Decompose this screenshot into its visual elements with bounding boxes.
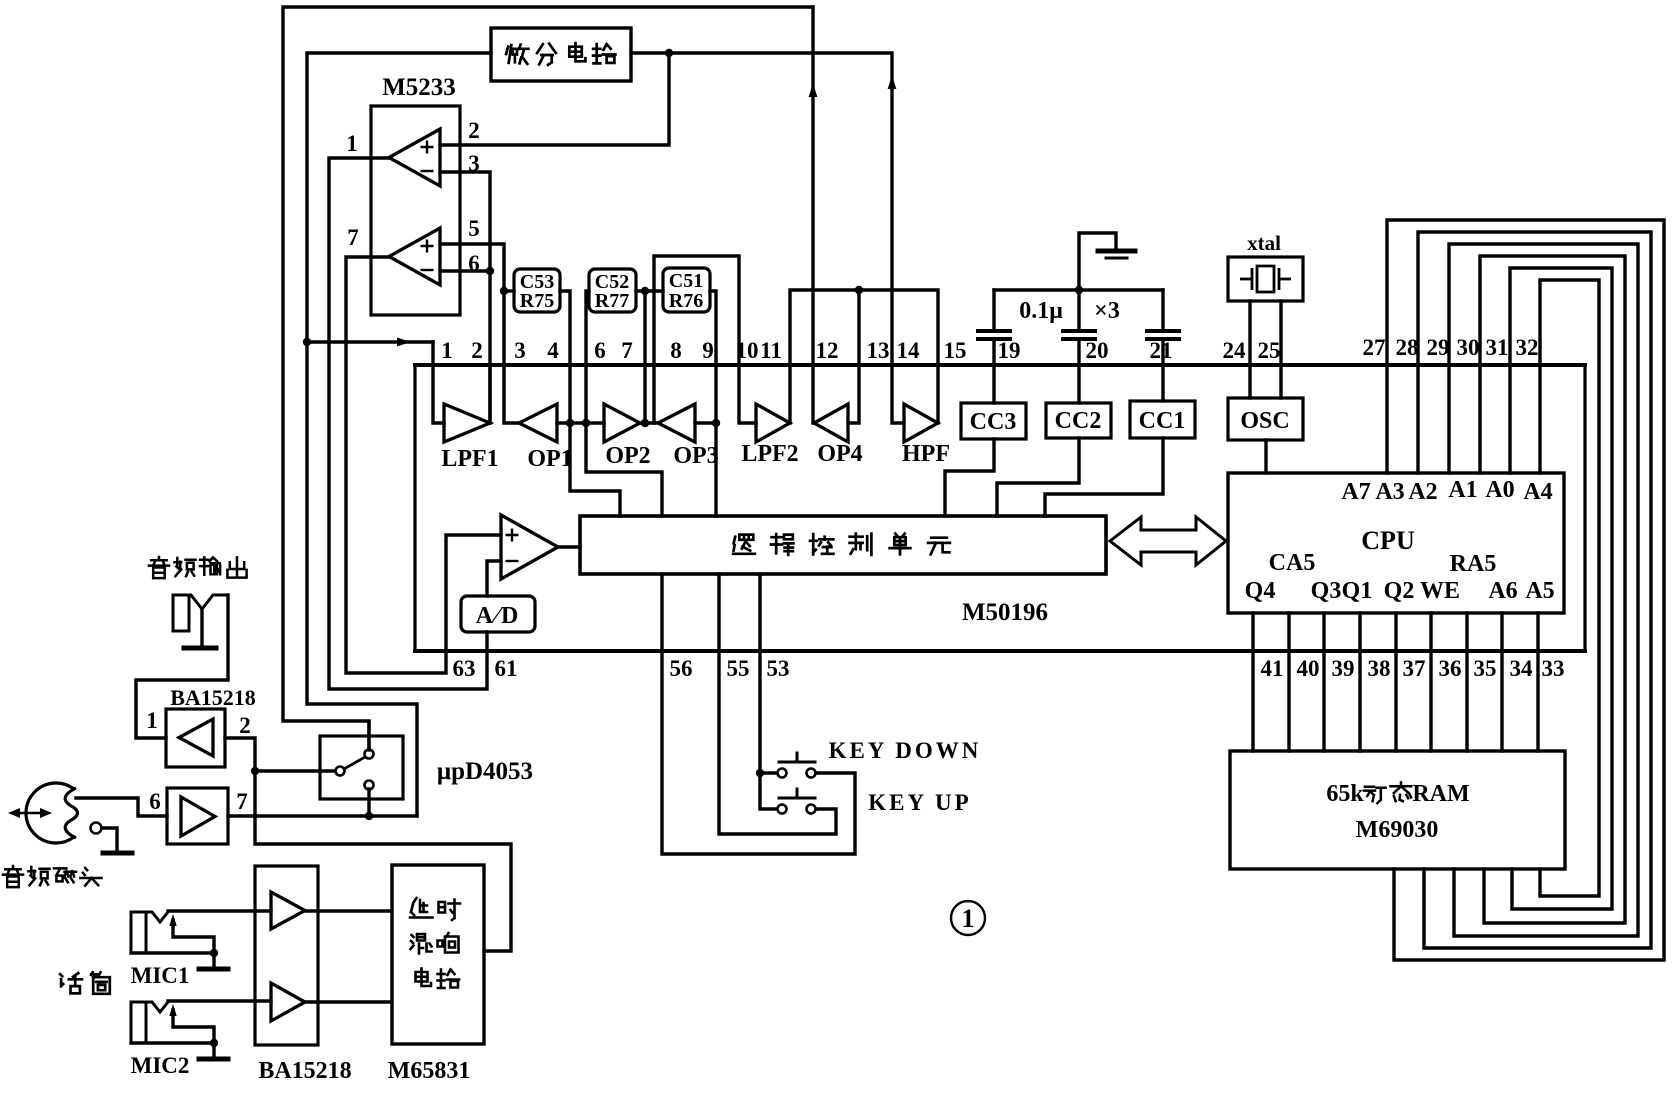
wire M5233 pin3/pin6 to IC pin 2 (LPF1 output) xyxy=(440,172,490,423)
svg-text:8: 8 xyxy=(670,338,682,363)
junction key down common xyxy=(756,769,764,777)
pin 14 label xyxy=(897,338,921,363)
pin 61 label xyxy=(495,656,518,681)
svg-text:xtal: xtal xyxy=(1247,231,1281,255)
wire amp output (crosses to pin 1 feed) xyxy=(228,814,417,817)
wire CC3 to logic unit xyxy=(945,439,994,516)
svg-text:WE: WE xyxy=(1420,578,1460,604)
svg-text:OSC: OSC xyxy=(1240,408,1289,434)
wire M5233 pin 5 to IC pin 3 (OP1 output) xyxy=(440,244,519,423)
op-amp block M5233 outline xyxy=(371,106,460,315)
svg-text:CC1: CC1 xyxy=(1139,408,1186,434)
wire CPU pin to RAM xyxy=(1500,613,1503,751)
svg-text:BA15218: BA15218 xyxy=(170,685,256,710)
svg-text:M50196: M50196 xyxy=(962,599,1048,626)
svg-text:27: 27 xyxy=(1363,335,1386,360)
pin 1 label xyxy=(441,338,453,363)
buffer LPF2 xyxy=(756,404,790,442)
svg-text:A∕D: A∕D xyxy=(476,603,521,629)
tape head symbol 音频磁头 xyxy=(26,783,77,843)
pin 8 label xyxy=(670,338,682,363)
wire C53 left to pin 3 net xyxy=(504,289,514,292)
delay/reverb circuit block M65831 xyxy=(392,865,484,1044)
pin 21 label xyxy=(1150,338,1173,363)
svg-text:OP2: OP2 xyxy=(605,443,650,469)
pin 12 label xyxy=(816,338,839,363)
svg-text:2: 2 xyxy=(239,713,251,738)
wire pin 55 to KEY UP return xyxy=(719,574,836,834)
svg-text:10: 10 xyxy=(736,338,759,363)
pin 3 label xyxy=(468,151,480,176)
capacitor at pin 19 xyxy=(992,290,995,330)
buffer OP1 xyxy=(519,404,557,442)
wire differentiator output to M5233 op-amp1 + input (pin 2) xyxy=(440,53,669,145)
svg-text:MIC2: MIC2 xyxy=(131,1053,190,1078)
svg-text:A5: A5 xyxy=(1525,578,1554,604)
wire LPF2 output pin 11 to pin 13 and pin 15 over the top xyxy=(790,290,938,423)
IC label M5233 xyxy=(382,74,456,101)
switch KEY UP xyxy=(778,805,787,814)
svg-text:13: 13 xyxy=(867,338,890,363)
capacitor at pin 21 xyxy=(1161,290,1164,330)
pin 6 label xyxy=(468,251,480,276)
svg-text:A3: A3 xyxy=(1375,479,1404,505)
svg-text:19: 19 xyxy=(998,338,1021,363)
pin 15 label xyxy=(944,338,967,363)
svg-text:1: 1 xyxy=(441,338,453,363)
buffer OP2 xyxy=(604,404,640,442)
pin 53 label xyxy=(767,656,790,681)
pin 1 label xyxy=(346,131,358,156)
wire differentiator output to HPF input pin 14 xyxy=(631,53,904,423)
audio output jack xyxy=(173,595,189,631)
svg-text:29: 29 xyxy=(1427,335,1450,360)
pin 38 label xyxy=(1368,656,1391,681)
svg-text:20: 20 xyxy=(1086,338,1109,363)
pin 2 label xyxy=(468,118,480,143)
bus wire pin 27 CPU to RAM loop xyxy=(1387,220,1664,960)
wire OP2 output to OP3 output xyxy=(640,421,658,424)
wire pin 2 to switch and reverb return xyxy=(225,738,511,951)
bus wire pin 32 CPU to RAM loop xyxy=(1540,280,1599,896)
svg-text:1: 1 xyxy=(146,708,158,733)
wire C51 right to pin 9 / OP3 input xyxy=(710,291,716,516)
bidirectional arrow on tape head xyxy=(8,808,52,818)
svg-text:Q3: Q3 xyxy=(1311,578,1342,604)
svg-text:A2: A2 xyxy=(1408,479,1437,505)
amplifier label BA15218 xyxy=(170,685,256,710)
record amp BA15218b xyxy=(167,788,228,844)
tape head ground contact xyxy=(91,823,102,834)
wire tape-amp output to differentiator input and LPF1 input xyxy=(307,53,491,816)
wire LPF1 output to pin 2 xyxy=(488,365,491,423)
svg-text:2: 2 xyxy=(471,338,483,363)
wire C52 right to C51 left with pin 7 tap xyxy=(636,289,663,292)
wire pin 12 (OP4 output) up to outer top line xyxy=(813,7,814,423)
wire CPU pin to RAM xyxy=(1536,613,1539,751)
junction C53 tap on pin3 net xyxy=(500,287,508,295)
svg-text:7: 7 xyxy=(236,789,248,814)
wire amp1 to delay circuit xyxy=(305,909,392,912)
svg-text:Q4: Q4 xyxy=(1245,578,1276,604)
wire M5233 pin 7 output down to IC pin 63 (comparator chain) xyxy=(346,257,501,673)
svg-text:A4: A4 xyxy=(1523,479,1552,505)
wire OP1 input down to logic unit xyxy=(570,423,620,516)
wire to switch common xyxy=(255,769,335,772)
wire CPU pin to RAM xyxy=(1251,613,1254,751)
svg-text:33: 33 xyxy=(1542,656,1565,681)
wire CC2 to logic unit xyxy=(997,438,1079,516)
svg-text:LPF2: LPF2 xyxy=(741,441,798,467)
IC M50196 right edge xyxy=(1583,365,1586,651)
svg-text:C51: C51 xyxy=(669,270,703,292)
svg-text:A0: A0 xyxy=(1485,477,1514,503)
playback amp BA15218a xyxy=(166,709,225,767)
wire amp2 to delay circuit xyxy=(305,1000,392,1003)
junction on differentiator output xyxy=(665,49,673,57)
pin 1 label xyxy=(146,708,158,733)
wire MIC1 to amp xyxy=(168,909,271,912)
svg-text:38: 38 xyxy=(1368,656,1391,681)
junction pin 7 tap at buffer outputs xyxy=(641,419,649,427)
junction pin 13 tap xyxy=(855,286,863,294)
logic control unit block 逻辑控制单元 xyxy=(580,516,1106,574)
wire pin 1 into LPF1 xyxy=(433,342,444,423)
svg-text:12: 12 xyxy=(816,338,839,363)
pin 4 label xyxy=(547,338,559,363)
wire tape head to amp pin 6 xyxy=(76,798,167,816)
buffer OP4 xyxy=(814,404,848,442)
pin 7 label xyxy=(621,338,633,363)
buffer HPF xyxy=(904,404,938,442)
pin 29 label xyxy=(1427,335,1450,360)
wire comparator output to logic unit xyxy=(558,545,580,548)
pin 7 label xyxy=(236,789,248,814)
svg-text:53: 53 xyxy=(767,656,790,681)
wire CPU pin to RAM xyxy=(1287,613,1290,751)
svg-text:63: 63 xyxy=(453,656,476,681)
wire to KEY DOWN switch xyxy=(760,771,777,774)
svg-text:35: 35 xyxy=(1474,656,1497,681)
svg-text:Q2: Q2 xyxy=(1384,578,1415,604)
svg-text:32: 32 xyxy=(1516,335,1539,360)
wire M5233 pin 6 from inverting input xyxy=(440,269,490,272)
mic amplifier BA15218 (second) xyxy=(255,866,318,1045)
pin 2 label xyxy=(239,713,251,738)
pin 3 label xyxy=(514,338,526,363)
wire OP2 input down to logic unit xyxy=(586,423,662,516)
analog switch uPD4053 xyxy=(320,736,403,799)
pin 5 label xyxy=(468,216,480,241)
pin 32 label xyxy=(1516,335,1539,360)
svg-text:15: 15 xyxy=(944,338,967,363)
svg-text:31: 31 xyxy=(1486,335,1509,360)
svg-text:M69030: M69030 xyxy=(1356,817,1439,843)
label 话筒 xyxy=(60,972,110,994)
value label 0.1u x3 xyxy=(1019,298,1063,324)
svg-text:M5233: M5233 xyxy=(382,74,456,101)
svg-text:OP1: OP1 xyxy=(527,446,572,472)
pin 41 label xyxy=(1261,656,1284,681)
junction pin4 tap xyxy=(566,419,574,427)
wire OP4-output feedback to record/play switch (outer top line) xyxy=(283,7,813,750)
switch KEY DOWN xyxy=(778,769,787,778)
svg-text:OP3: OP3 xyxy=(673,443,718,469)
junction node at LPF1 input tap xyxy=(303,338,311,346)
pin 2 label xyxy=(471,338,483,363)
pin 13 label xyxy=(867,338,890,363)
junction pin6 joins xyxy=(486,267,494,275)
wire MIC2 to amp xyxy=(168,999,271,1002)
pin 63 label xyxy=(453,656,476,681)
svg-text:28: 28 xyxy=(1396,335,1419,360)
svg-text:40: 40 xyxy=(1297,656,1320,681)
svg-text:4: 4 xyxy=(547,338,559,363)
pin 10 label xyxy=(736,338,759,363)
wire C52 left to pin 6 / OP2 input xyxy=(586,291,589,423)
svg-text:41: 41 xyxy=(1261,656,1284,681)
junction switch common tap xyxy=(251,767,259,775)
pin 6 label xyxy=(149,789,161,814)
svg-text:A6: A6 xyxy=(1488,578,1517,604)
svg-text:39: 39 xyxy=(1332,656,1355,681)
wire M5233 pin 1 output down to IC pin 61 (A/D input chain) xyxy=(329,158,487,689)
wire xtal pin 24 to OSC xyxy=(1248,301,1251,398)
arrow up on pin 12 wire xyxy=(809,83,818,97)
pin 6 label xyxy=(594,338,606,363)
comparator U-comp before logic unit xyxy=(501,515,558,579)
IC label M50196 xyxy=(962,599,1048,626)
pin 25 label xyxy=(1258,338,1281,363)
wire OP3 output to LPF2 input over-the-top loop (pins 8-10) xyxy=(654,256,756,423)
svg-text:CA5: CA5 xyxy=(1269,550,1316,576)
pin 39 label xyxy=(1332,656,1355,681)
A/D converter block xyxy=(461,596,535,632)
svg-text:3: 3 xyxy=(514,338,526,363)
pin 30 label xyxy=(1457,335,1480,360)
svg-text:65k: 65k xyxy=(1326,781,1364,807)
pin 11 label xyxy=(760,338,782,363)
svg-text:×3: ×3 xyxy=(1094,298,1120,324)
arrow into pin 1 xyxy=(397,338,411,347)
wire C53 right to pin 4 / OP1 input xyxy=(560,291,570,423)
pin 19 label xyxy=(998,338,1021,363)
pin 20 label xyxy=(1086,338,1109,363)
svg-text:6: 6 xyxy=(149,789,161,814)
crystal xtal label xyxy=(1247,231,1281,255)
svg-text:6: 6 xyxy=(594,338,606,363)
capacitor C53 / resistor R75 feedback network xyxy=(514,269,560,312)
bus wire pin 29 CPU to RAM loop xyxy=(1449,244,1638,936)
svg-text:LPF1: LPF1 xyxy=(441,446,498,472)
op-amp U1a (M5233 first half) xyxy=(389,129,440,186)
wire switch lower contact to tape amp output xyxy=(367,789,370,816)
svg-text:1: 1 xyxy=(346,131,358,156)
svg-text:56: 56 xyxy=(670,656,693,681)
pin 34 label xyxy=(1510,656,1534,681)
svg-text:OP4: OP4 xyxy=(817,441,862,467)
arrow up on pin 14 wire xyxy=(888,75,897,89)
svg-text:R75: R75 xyxy=(520,290,554,312)
junction cap bus xyxy=(1075,286,1083,294)
microphone jack MIC2 xyxy=(131,1002,146,1043)
buffer OP3 xyxy=(658,404,695,442)
wire CPU pin to RAM xyxy=(1358,613,1361,751)
junction pin6 tap xyxy=(582,419,590,427)
IC M50196 left edge xyxy=(413,365,416,651)
block CC3 xyxy=(992,365,995,403)
svg-text:A7: A7 xyxy=(1341,479,1370,505)
IC M50196 bottom edge pin row xyxy=(415,649,1585,653)
ground symbol above decoupling caps xyxy=(1079,233,1116,290)
pin 28 label xyxy=(1396,335,1419,360)
figure number circled 1 xyxy=(951,901,985,935)
wire pin 56 to KEY DOWN return xyxy=(662,574,855,854)
svg-text:11: 11 xyxy=(760,338,782,363)
junction OP3 input xyxy=(712,419,720,427)
wire pin 7 to OP2/OP3 outputs xyxy=(643,291,646,423)
pin 40 label xyxy=(1297,656,1320,681)
label audio output 音频输出 xyxy=(149,557,247,578)
svg-text:30: 30 xyxy=(1457,335,1480,360)
svg-text:14: 14 xyxy=(897,338,921,363)
svg-text:24: 24 xyxy=(1223,338,1247,363)
buffer LPF1 xyxy=(444,404,490,442)
svg-text:7: 7 xyxy=(621,338,633,363)
junction on tape amp output xyxy=(365,812,373,820)
wire CPU pin to RAM xyxy=(1429,613,1432,751)
pin 55 label xyxy=(727,656,750,681)
pin 37 label xyxy=(1403,656,1426,681)
pin 56 label xyxy=(670,656,693,681)
wire pin 13 to OP4 input xyxy=(848,290,859,423)
svg-text:KEY UP: KEY UP xyxy=(868,790,971,815)
bus wire pin 31 CPU to RAM loop xyxy=(1510,268,1612,909)
label 音频磁头 xyxy=(3,866,102,887)
svg-text:RAM: RAM xyxy=(1412,781,1469,807)
pin 24 label xyxy=(1223,338,1247,363)
pin 35 label xyxy=(1474,656,1497,681)
svg-text:0.1μ: 0.1μ xyxy=(1019,298,1063,324)
switch label uPD4053 xyxy=(437,758,533,785)
svg-text:CPU: CPU xyxy=(1361,526,1415,555)
svg-text:21: 21 xyxy=(1150,338,1173,363)
svg-text:2: 2 xyxy=(468,118,480,143)
svg-text:5: 5 xyxy=(468,216,480,241)
wire OSC to CPU xyxy=(1264,440,1267,473)
block CPU xyxy=(1228,473,1564,613)
oscillator block OSC xyxy=(1228,398,1303,440)
IC M50196 top edge pin row xyxy=(415,363,1585,367)
svg-text:34: 34 xyxy=(1510,656,1534,681)
wire node to IC pin 1 (LPF1 input) xyxy=(307,340,433,343)
differentiator block 微分电路 xyxy=(491,28,631,81)
svg-text:7: 7 xyxy=(347,225,359,250)
pin 27 label xyxy=(1363,335,1386,360)
svg-text:HPF: HPF xyxy=(902,441,950,467)
wire CPU pin to RAM xyxy=(1322,613,1325,751)
pin 9 label xyxy=(702,338,714,363)
svg-text:9: 9 xyxy=(702,338,714,363)
crystal block xyxy=(1228,257,1303,301)
pin 36 label xyxy=(1439,656,1462,681)
wire jack to BA15218 pin 1 xyxy=(136,595,228,738)
wire OP3 input to pin 9 net xyxy=(695,421,716,424)
wire CPU pin to RAM xyxy=(1394,613,1397,751)
svg-text:R77: R77 xyxy=(595,290,629,312)
svg-text:1: 1 xyxy=(962,904,975,933)
svg-text:CC2: CC2 xyxy=(1055,408,1102,434)
wire pin 53 to key commons xyxy=(760,574,777,809)
capacitor C52 / resistor R77 feedback network xyxy=(589,269,636,312)
svg-text:6: 6 xyxy=(468,251,480,276)
svg-text:CC3: CC3 xyxy=(970,409,1017,435)
svg-text:R76: R76 xyxy=(669,290,703,312)
wire CC1 to logic unit xyxy=(1045,438,1163,516)
cap bus wire xyxy=(994,288,1163,291)
pin 7 label xyxy=(347,225,359,250)
wire OP1 input node xyxy=(557,421,604,424)
svg-text:RA5: RA5 xyxy=(1450,551,1497,577)
svg-text:μpD4053: μpD4053 xyxy=(437,758,533,785)
block 65k dynamic RAM M69030 xyxy=(1230,751,1565,869)
svg-text:Q1: Q1 xyxy=(1342,578,1373,604)
svg-text:36: 36 xyxy=(1439,656,1462,681)
svg-text:MIC1: MIC1 xyxy=(131,963,190,988)
pin 31 label xyxy=(1486,335,1509,360)
bus wire pin 30 CPU to RAM loop xyxy=(1480,256,1625,923)
capacitor C51 / resistor R76 feedback network xyxy=(663,268,710,312)
wire switch upper contact up xyxy=(367,722,370,750)
svg-text:61: 61 xyxy=(495,656,518,681)
svg-text:M65831: M65831 xyxy=(388,1058,471,1084)
svg-text:BA15218: BA15218 xyxy=(258,1058,351,1084)
svg-text:25: 25 xyxy=(1258,338,1281,363)
block CC2 xyxy=(1077,365,1080,403)
svg-text:55: 55 xyxy=(727,656,750,681)
capacitor at pin 20 xyxy=(1077,290,1080,330)
block CC1 xyxy=(1161,365,1164,401)
bus wire pin 28 CPU to RAM loop xyxy=(1418,232,1651,948)
wire comparator inverting input from A/D xyxy=(487,561,501,596)
bus double-arrow between logic unit and CPU xyxy=(1110,517,1226,565)
svg-text:KEY DOWN: KEY DOWN xyxy=(829,738,982,763)
op-amp U1b (M5233 second half) xyxy=(389,228,440,285)
junction pin 7 tap xyxy=(641,287,649,295)
svg-text:37: 37 xyxy=(1403,656,1426,681)
wire CPU pin to RAM xyxy=(1465,613,1468,751)
pin 33 label xyxy=(1542,656,1565,681)
svg-text:A1: A1 xyxy=(1448,477,1477,503)
wire xtal pin 25 to OSC xyxy=(1279,301,1282,398)
microphone jack MIC1 xyxy=(131,912,146,953)
